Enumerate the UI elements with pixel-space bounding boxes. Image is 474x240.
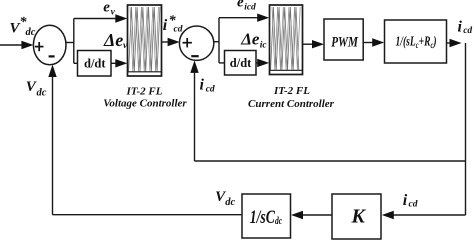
svg-text:i: i: [403, 192, 408, 209]
svg-text:Δe: Δe: [103, 30, 123, 50]
svg-text:cd: cd: [463, 26, 472, 36]
svg-text:d/dt: d/dt: [230, 56, 252, 70]
svg-text:Δe: Δe: [240, 30, 260, 49]
svg-text:ic: ic: [260, 41, 268, 51]
svg-text:IT-2 FL: IT-2 FL: [273, 85, 310, 97]
svg-text:dc: dc: [275, 215, 282, 226]
svg-text:i: i: [200, 76, 205, 93]
svg-text:cd: cd: [409, 200, 418, 210]
svg-text:IT-2 FL: IT-2 FL: [126, 86, 163, 98]
svg-text:K: K: [351, 206, 367, 228]
svg-text:i: i: [163, 17, 168, 34]
svg-text:1/(sL: 1/(sL: [396, 34, 416, 49]
svg-text:v: v: [111, 8, 116, 18]
svg-text:Current Controller: Current Controller: [248, 98, 335, 110]
svg-text:dc: dc: [225, 197, 235, 208]
svg-text:Voltage Controller: Voltage Controller: [103, 98, 187, 110]
svg-text:cd: cd: [206, 85, 215, 95]
svg-text:+R: +R: [419, 34, 431, 49]
svg-text:1/sC: 1/sC: [250, 206, 276, 228]
svg-text:e: e: [103, 0, 110, 15]
svg-text:dc: dc: [37, 88, 47, 99]
svg-text:icd: icd: [244, 3, 256, 13]
svg-text:e: e: [237, 0, 244, 10]
svg-text:cd: cd: [174, 25, 183, 35]
svg-text:PWM: PWM: [331, 33, 358, 50]
svg-text:): ): [433, 34, 437, 49]
svg-text:i: i: [458, 18, 463, 35]
svg-text:dc: dc: [26, 27, 36, 38]
svg-text:d/dt: d/dt: [84, 57, 106, 71]
